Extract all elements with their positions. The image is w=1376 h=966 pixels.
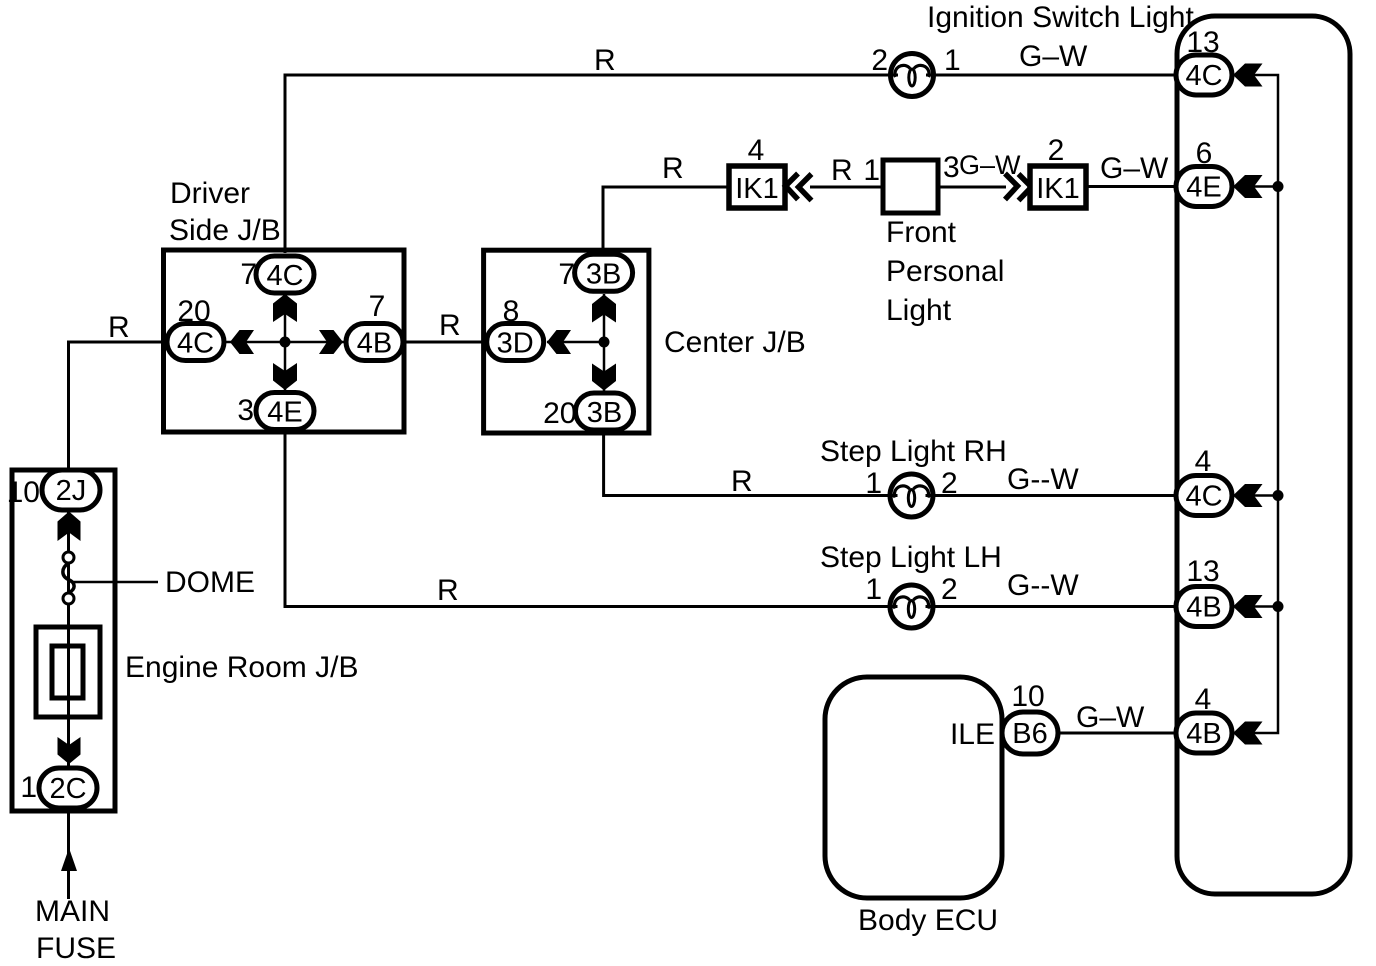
arrow up to 4C bbox=[273, 294, 297, 322]
fuse symbol (inner) bbox=[52, 646, 83, 698]
arrow down to 2C bbox=[58, 737, 81, 764]
wire Center 3B(7) to IK1 (R) bbox=[603, 187, 729, 251]
svg-text:4B: 4B bbox=[1186, 592, 1221, 624]
svg-text:10: 10 bbox=[1011, 680, 1044, 713]
connector 4C pin 4 bbox=[1176, 445, 1232, 516]
junction dot Center J/B bbox=[599, 337, 610, 348]
dome switch blade bbox=[63, 563, 74, 593]
Center J/B internal bus bbox=[547, 294, 604, 391]
svg-text:FUSE: FUSE bbox=[36, 932, 116, 965]
arrow up to 3B(7) bbox=[592, 295, 616, 323]
connector 3B pin 20 (Center J/B bottom) bbox=[543, 393, 633, 430]
svg-text:10: 10 bbox=[7, 476, 40, 509]
svg-text:20: 20 bbox=[543, 397, 576, 430]
ignition switch lamp bbox=[891, 54, 934, 97]
svg-text:3: 3 bbox=[237, 394, 254, 427]
svg-text:4: 4 bbox=[748, 134, 765, 167]
svg-text:2: 2 bbox=[871, 44, 888, 77]
svg-text:7: 7 bbox=[240, 258, 257, 291]
female terminal chevrons IK1 left bbox=[786, 174, 812, 201]
terminal arrow at 4B(4) bbox=[1233, 722, 1263, 745]
svg-text:Personal: Personal bbox=[886, 255, 1004, 288]
svg-text:3: 3 bbox=[943, 151, 960, 184]
wire lamp to 4C (G-W) bbox=[934, 74, 1178, 77]
svg-text:R: R bbox=[662, 152, 684, 185]
svg-text:Step Light RH: Step Light RH bbox=[820, 435, 1007, 468]
svg-text:Body ECU: Body ECU bbox=[858, 904, 998, 937]
svg-text:4C: 4C bbox=[266, 260, 303, 292]
svg-text:4: 4 bbox=[1195, 445, 1212, 478]
connector 3D pin 8 (Center J/B left) bbox=[487, 295, 544, 361]
svg-text:G--W: G--W bbox=[1007, 569, 1079, 602]
leader line DOME bbox=[73, 581, 158, 584]
svg-text:G–W: G–W bbox=[1076, 701, 1145, 734]
connector 4B pin 4 bbox=[1176, 683, 1232, 753]
svg-text:G--W: G--W bbox=[1007, 463, 1079, 496]
svg-text:1: 1 bbox=[20, 771, 37, 804]
connector 2C pin 1 bbox=[20, 768, 97, 808]
wire Front Personal Light to IK1 (G-W) bbox=[938, 186, 1006, 189]
junction dot at 4C bbox=[1273, 490, 1284, 501]
junction dot at 4E bbox=[1273, 181, 1284, 192]
wire through fuse bbox=[67, 604, 70, 737]
arrow left to 4C(20) bbox=[230, 330, 254, 354]
svg-text:G–W: G–W bbox=[959, 150, 1021, 180]
svg-text:4B: 4B bbox=[357, 328, 392, 360]
svg-text:MAIN: MAIN bbox=[35, 895, 110, 928]
Driver Side J/B box bbox=[164, 250, 405, 432]
connector 4E pin 6 bbox=[1176, 137, 1232, 207]
svg-text:IK1: IK1 bbox=[735, 173, 779, 205]
svg-text:R: R bbox=[437, 574, 459, 607]
svg-text:B6: B6 bbox=[1012, 718, 1047, 750]
fuse symbol (outer) bbox=[36, 627, 100, 717]
svg-text:R: R bbox=[594, 44, 616, 77]
svg-text:6: 6 bbox=[1196, 137, 1213, 170]
terminal arrow at 4C(13) bbox=[1233, 64, 1263, 87]
svg-text:R: R bbox=[831, 154, 853, 187]
wire top feed (R) from Driver 4C to ignition lamp bbox=[285, 75, 890, 253]
connector IK1 pin 2 bbox=[1030, 134, 1086, 208]
connector 4B pin 7 (Driver J/B right) bbox=[346, 290, 403, 361]
wire main fuse to Engine Room J/B (bottom lead) bbox=[67, 808, 70, 899]
svg-text:G–W: G–W bbox=[1100, 152, 1169, 185]
svg-text:Ignition Switch Light: Ignition Switch Light bbox=[927, 1, 1194, 34]
svg-text:3D: 3D bbox=[497, 328, 534, 360]
connector 4C pin 20 (Driver J/B left) bbox=[167, 295, 224, 361]
male terminal chevrons IK1 right bbox=[1005, 174, 1032, 201]
wire IK1 to Front Personal Light (R) bbox=[810, 186, 883, 189]
svg-text:Step Light LH: Step Light LH bbox=[820, 541, 1002, 574]
connector IK1 pin 4 bbox=[729, 134, 785, 208]
svg-text:13: 13 bbox=[1186, 26, 1219, 59]
Center J/B box bbox=[484, 250, 649, 433]
arrow right to 4B bbox=[319, 330, 343, 354]
svg-text:20: 20 bbox=[177, 295, 210, 328]
connector 4E pin 3 (Driver J/B bottom) bbox=[237, 393, 314, 430]
wire IK1 to 4E (G-W) bbox=[1086, 185, 1177, 188]
internal bus wire bbox=[1252, 75, 1278, 733]
step light LH lamp bbox=[890, 585, 933, 628]
wire lamp to 4B (G-W) bbox=[933, 605, 1177, 608]
svg-text:3B: 3B bbox=[586, 258, 621, 290]
terminal arrow at 4E(6) bbox=[1233, 175, 1263, 198]
Driver J/B internal bus bbox=[226, 294, 344, 390]
wire Driver 4B to Center 3D (R) bbox=[404, 341, 487, 344]
svg-text:G–W: G–W bbox=[1019, 40, 1088, 73]
svg-text:Engine Room J/B: Engine Room J/B bbox=[125, 651, 358, 684]
connector 4B pin 13 bbox=[1176, 555, 1232, 627]
Ignition Switch connector panel bbox=[1177, 16, 1350, 894]
svg-text:13: 13 bbox=[1186, 555, 1219, 588]
step light RH lamp bbox=[890, 474, 933, 517]
svg-text:Center J/B: Center J/B bbox=[664, 326, 806, 359]
label Driver Side J/B bbox=[169, 177, 281, 247]
svg-text:4C: 4C bbox=[177, 328, 214, 360]
junction dot Driver J/B bbox=[280, 337, 291, 348]
connector 2J pin 10 bbox=[7, 470, 100, 510]
connector 4C pin 13 bbox=[1176, 26, 1232, 95]
terminal arrow at 4B(13) bbox=[1233, 595, 1263, 618]
svg-text:R: R bbox=[731, 465, 753, 498]
wire 2J to Driver Side J/B (R) bbox=[69, 342, 168, 470]
wire Center 3B(20) to Step Light RH (R) bbox=[604, 432, 890, 496]
connector 4C pin 7 (Driver J/B top) bbox=[240, 256, 314, 293]
svg-text:Light: Light bbox=[886, 294, 952, 327]
svg-text:1: 1 bbox=[944, 44, 961, 77]
svg-text:2: 2 bbox=[941, 573, 958, 606]
arrow down to 3B(20) bbox=[592, 364, 616, 391]
arrow down to 4E bbox=[273, 363, 297, 390]
svg-text:1: 1 bbox=[863, 154, 880, 187]
svg-text:4E: 4E bbox=[267, 397, 302, 429]
svg-text:4C: 4C bbox=[1185, 481, 1222, 513]
svg-text:2C: 2C bbox=[49, 773, 86, 805]
svg-text:1: 1 bbox=[865, 573, 882, 606]
svg-text:2: 2 bbox=[1048, 134, 1065, 167]
terminal arrow at 4C(4) bbox=[1233, 484, 1263, 507]
wire Driver 4E to Step Light LH (R) bbox=[285, 430, 890, 607]
arrow up to 2J bbox=[58, 512, 81, 542]
svg-text:1: 1 bbox=[865, 467, 882, 500]
svg-text:Driver: Driver bbox=[170, 177, 250, 210]
svg-text:7: 7 bbox=[558, 258, 575, 291]
svg-text:IK1: IK1 bbox=[1036, 173, 1080, 205]
dome switch contact lower bbox=[63, 593, 74, 604]
svg-text:7: 7 bbox=[369, 290, 386, 323]
svg-text:8: 8 bbox=[503, 295, 520, 328]
connector B6 pin 10 bbox=[1002, 680, 1058, 754]
dome switch contact upper bbox=[63, 552, 74, 563]
label MAIN FUSE bbox=[35, 895, 116, 965]
svg-text:3B: 3B bbox=[587, 397, 622, 429]
svg-text:4B: 4B bbox=[1186, 718, 1221, 750]
Body ECU box bbox=[825, 677, 1002, 898]
main fuse feed arrow bbox=[61, 848, 77, 871]
Front Personal Light body bbox=[883, 160, 938, 213]
svg-text:2J: 2J bbox=[56, 475, 87, 507]
svg-text:4E: 4E bbox=[1186, 172, 1221, 204]
Engine Room J/B box bbox=[12, 470, 115, 811]
junction dot at 4B bbox=[1273, 601, 1284, 612]
svg-text:4C: 4C bbox=[1185, 60, 1222, 92]
connector 3B pin 7 (Center J/B top) bbox=[558, 254, 632, 291]
svg-text:R: R bbox=[439, 309, 461, 342]
label Front Personal Light bbox=[886, 216, 1004, 327]
svg-text:DOME: DOME bbox=[165, 566, 255, 599]
svg-text:Side J/B: Side J/B bbox=[169, 214, 281, 247]
svg-text:ILE: ILE bbox=[950, 718, 995, 751]
wire B6 to 4B (G-W) bbox=[1058, 732, 1177, 735]
arrow left to 3D bbox=[547, 330, 571, 354]
svg-text:Front: Front bbox=[886, 216, 957, 249]
svg-text:R: R bbox=[108, 311, 130, 344]
wire Engine Room J/B internal vertical bbox=[67, 510, 70, 770]
svg-text:4: 4 bbox=[1195, 683, 1212, 716]
wire lamp to 4C (G-W) bbox=[933, 494, 1177, 497]
